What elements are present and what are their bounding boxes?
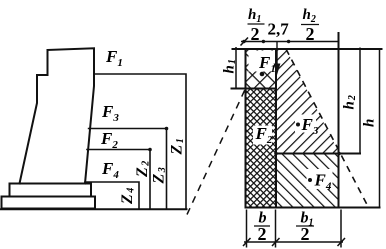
svg-text:2,7: 2,7: [268, 20, 290, 39]
svg-text:2: 2: [306, 24, 315, 44]
svg-text:2: 2: [301, 224, 310, 244]
svg-text:2: 2: [258, 224, 267, 244]
svg-text:2: 2: [251, 24, 260, 44]
svg-text:h: h: [362, 119, 378, 127]
